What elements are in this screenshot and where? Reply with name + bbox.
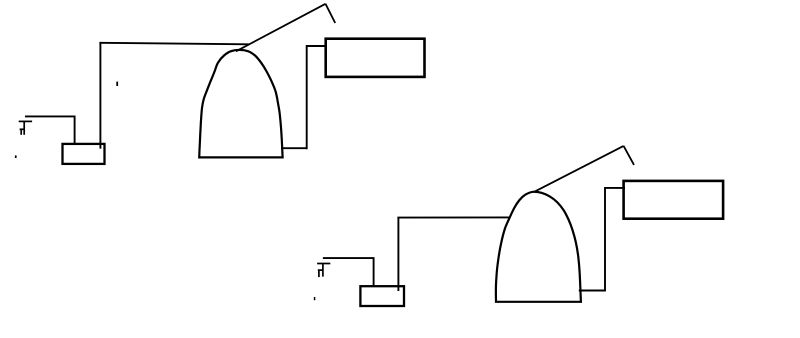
stray tick mark: [116, 82, 118, 86]
wire from G1 to node A: [25, 116, 75, 145]
wire from D2 right side: [579, 290, 605, 292]
wire into box R1: [307, 45, 327, 47]
component box B1: [63, 144, 105, 164]
wire riser from B2 up: [397, 218, 399, 291]
dome D2 (bell element): [496, 192, 581, 302]
wire from D1 right side: [281, 147, 307, 149]
antenna diagonal line on D2: [534, 146, 624, 192]
top wire to dome D1: [99, 43, 249, 45]
antenna diagonal line on D1: [236, 4, 326, 52]
ground/input symbol G2: [317, 264, 330, 278]
wire into box R2: [605, 187, 625, 189]
wire riser to output box: [306, 45, 308, 149]
antenna hook end: [326, 4, 336, 23]
output box R1: [326, 39, 425, 77]
output box R2: [624, 181, 724, 219]
wire from G2 to node B: [323, 258, 374, 287]
antenna hook end 2: [624, 146, 634, 165]
stray dot 2: [314, 297, 316, 300]
wire riser to output box 2: [604, 187, 606, 292]
wire riser from B1 up: [99, 43, 101, 149]
stray dot: [15, 155, 17, 158]
component box B2: [360, 286, 404, 306]
ground/input symbol G1: [19, 121, 32, 134]
dome D1 (bell element): [199, 50, 282, 157]
wire to dome D2: [397, 216, 509, 218]
